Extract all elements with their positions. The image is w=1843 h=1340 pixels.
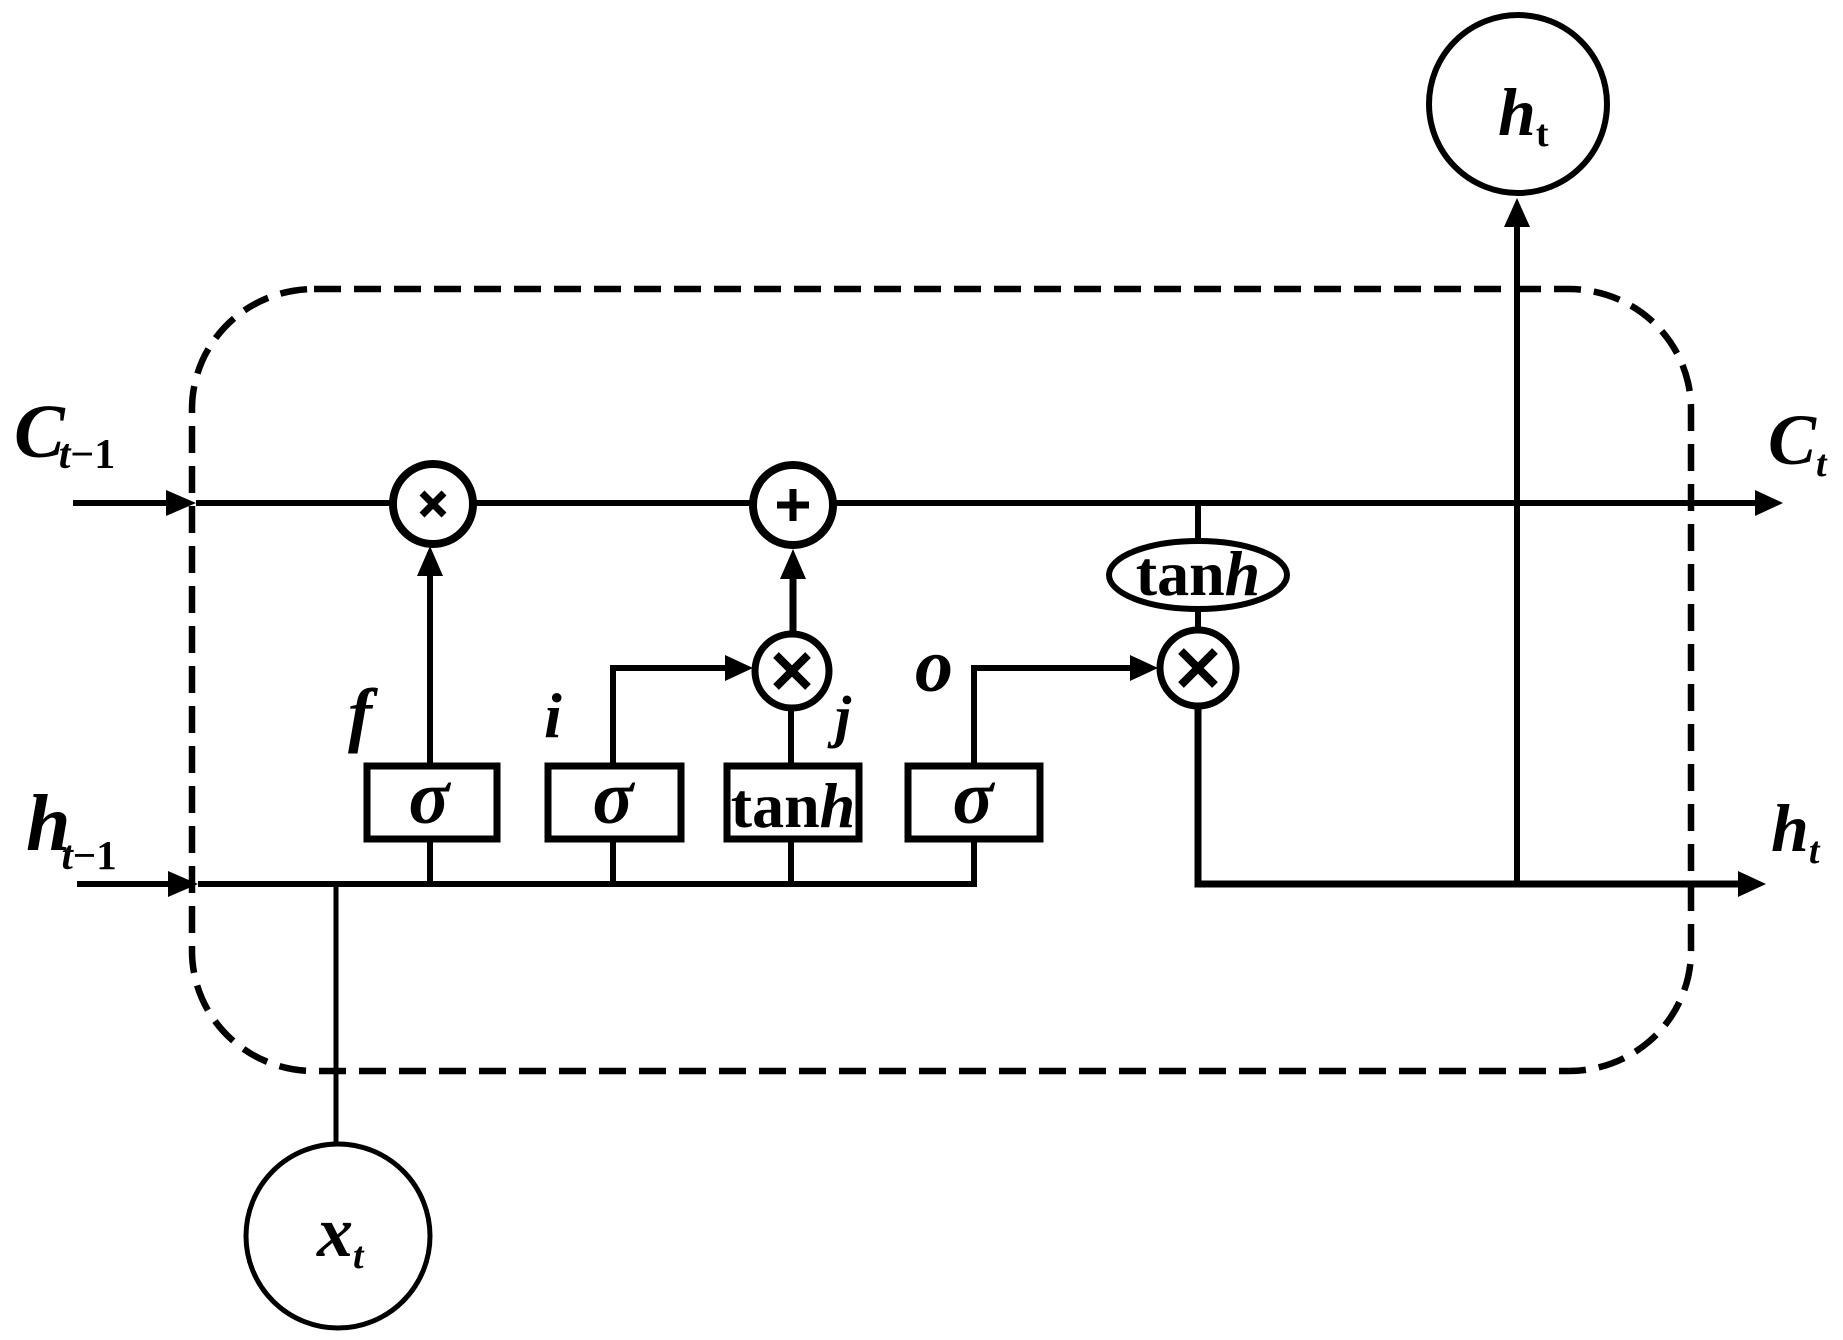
wire: tanh box to h line: [788, 839, 794, 887]
op plus (cell update add): [753, 465, 833, 545]
wire: x_t riser: [334, 884, 339, 1146]
wire: x2 down then right to h_t arrow: [1198, 704, 1738, 884]
wire: i gate riser and arrow into xj: [613, 668, 725, 766]
wire: cell-state line C: [196, 500, 1755, 506]
wire: f gate riser with arrowhead into x1: [427, 574, 433, 766]
wire: o gate riser and arrow into x2: [974, 668, 1130, 766]
wire: C entry arrow line: [73, 500, 166, 506]
gate box sigma i: [548, 756, 681, 840]
svg-text:o: o: [915, 624, 953, 708]
svg-text:σ: σ: [593, 756, 636, 840]
svg-text:tanh: tanh: [731, 770, 856, 841]
wire: h entry arrow line: [77, 881, 168, 887]
wire: vertical up to h_t circle with arrowhead: [1514, 226, 1520, 884]
node h_t output circle: [1429, 15, 1607, 193]
wire: h_{t-1} line to o-gate corner: [198, 839, 974, 884]
wire: xj up to plus with arrowhead: [790, 577, 797, 636]
wire: i box to h line: [610, 839, 616, 887]
svg-text:i: i: [544, 680, 562, 751]
op tanh ellipse: [1109, 538, 1287, 609]
op xj (input multiply): [755, 634, 829, 708]
op x2 (output multiply): [1160, 630, 1236, 706]
wire: h entry arrowhead: [168, 871, 198, 897]
svg-text:σ: σ: [409, 756, 452, 840]
gate box sigma o: [908, 756, 1040, 840]
LSTM cell dashed boundary: [192, 289, 1691, 1071]
gate box tanh j: [727, 766, 859, 841]
wire: tanh ellipse to x2: [1195, 606, 1201, 634]
wire: f box to h line: [427, 839, 433, 887]
wire: j riser tanh-box to xj: [788, 706, 794, 766]
wire: C line stub down to tanh ellipse: [1195, 503, 1201, 545]
svg-text:tanh: tanh: [1136, 538, 1261, 609]
gate box sigma f: [367, 756, 497, 840]
svg-text:σ: σ: [953, 756, 996, 840]
op x1 (forget multiply): [393, 464, 473, 544]
wire: C exit arrowhead: [1755, 490, 1783, 516]
wire: C entry arrowhead: [166, 490, 196, 516]
node x_t input circle: [246, 1144, 430, 1328]
